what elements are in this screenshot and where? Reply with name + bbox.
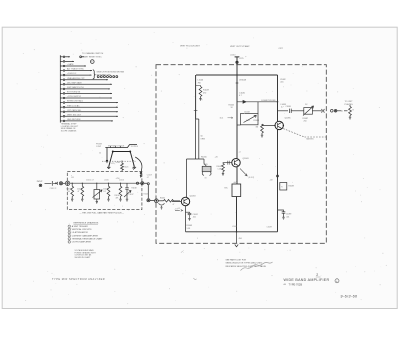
svg-text:TO PIN 3: TO PIN 3 [131,146,138,148]
svg-text:CR1048: CR1048 [239,79,246,81]
svg-text:SEE PARTS LIST FOR: SEE PARTS LIST FOR [226,258,247,261]
svg-text:START RESET SYNC: START RESET SYNC [82,55,102,58]
svg-text:C1012 4.7: C1012 4.7 [86,180,94,182]
svg-text:+225V SUPPLY: +225V SUPPLY [67,96,82,98]
svg-text:PLATES: PLATES [345,103,354,106]
svg-text:UNBLANKING CRT: UNBLANKING CRT [67,77,85,80]
svg-text:47: 47 [173,204,175,206]
svg-text:(6.8 V): (6.8 V) [249,177,255,179]
svg-text:4x7: 4x7 [234,182,237,184]
svg-text:WIDE BAND AMPLIFIER: WIDE BAND AMPLIFIER [284,278,330,282]
svg-text:E1048 PICKOFF: E1048 PICKOFF [262,100,277,102]
svg-text:.001: .001 [286,216,289,218]
svg-text:C1040: C1040 [239,92,246,94]
svg-text:4.7: 4.7 [281,107,284,109]
svg-text:C1044: C1044 [244,112,250,114]
svg-text:WITH MAG OFF: WITH MAG OFF [97,73,112,76]
svg-text:INPUT: INPUT [37,181,44,183]
svg-text:4.7: 4.7 [239,95,242,97]
svg-text:R1016: R1016 [115,195,120,197]
svg-text:ALT TRACE SYNC: ALT TRACE SYNC [67,68,84,71]
svg-text:DEL SWP GATE: DEL SWP GATE [67,81,82,84]
svg-text:OUTPUT AMPLIFIER: OUTPUT AMPLIFIER [72,241,92,244]
svg-text:C1089: C1089 [286,214,291,216]
svg-text:SCOPE CHASSIS: SCOPE CHASSIS [61,129,77,132]
svg-text:16.4: 16.4 [220,118,224,120]
svg-text:TYPE 702B: TYPE 702B [289,282,303,286]
svg-text:SWP RATE 1 MS/CM: SWP RATE 1 MS/CM [108,144,125,147]
svg-text:6: 6 [69,242,70,244]
svg-text:47: 47 [78,191,80,193]
svg-text:C1011: C1011 [77,189,82,191]
svg-text:+GATE: +GATE [67,63,74,66]
svg-text:TYPE M/R SPECTRUM ANALYZER: TYPE M/R SPECTRUM ANALYZER [52,278,105,281]
svg-text:+26: +26 [215,157,218,159]
svg-text:Q1085: Q1085 [285,118,292,120]
svg-text:-1.5: -1.5 [175,208,178,210]
svg-text:1: 1 [69,226,70,228]
svg-text:EXT HORIZ IN: EXT HORIZ IN [67,92,81,94]
svg-text:GANGED: GANGED [306,138,314,141]
svg-text:R1063: R1063 [187,225,193,227]
svg-text:.001: .001 [280,82,284,84]
svg-text:C1016: C1016 [119,180,124,182]
svg-text:HTR 6.3 V AC: HTR 6.3 V AC [67,104,80,107]
svg-text:TO CHANNEL SWITCH: TO CHANNEL SWITCH [82,52,104,55]
svg-text:TERMINAL RESISTANCE CHART: TERMINAL RESISTANCE CHART [72,237,103,240]
svg-text:Q1063: Q1063 [190,196,197,198]
svg-text:C1017: C1017 [129,194,134,196]
svg-text:L1046: L1046 [198,79,204,81]
svg-text:4.7: 4.7 [147,177,149,179]
svg-text:LF ATTENUATOR: LF ATTENUATOR [72,231,89,234]
svg-text:+100V DC: +100V DC [67,73,77,75]
svg-text:SHOWN IN CHART: SHOWN IN CHART [75,256,92,259]
svg-text:OHM: OHM [201,138,206,140]
svg-text:8.2: 8.2 [104,191,106,193]
svg-text:Q1043: Q1043 [243,158,250,160]
svg-text:+3: +3 [239,151,241,153]
svg-text:4-20: 4-20 [246,120,250,122]
svg-text:CRT CATH SEL: CRT CATH SEL [67,109,82,112]
svg-text:+68: +68 [270,180,273,182]
svg-text:A SWP TRIGGER: A SWP TRIGGER [72,225,88,228]
svg-text:VERT PLUG-IN UNIT: VERT PLUG-IN UNIT [180,45,201,47]
svg-text:250: 250 [304,121,307,123]
svg-text:L1040: L1040 [230,54,235,56]
svg-text:+225: +225 [111,163,115,165]
svg-text:L1069: L1069 [232,226,237,228]
svg-text:GND RETURN: GND RETURN [67,119,81,121]
svg-text:R1011: R1011 [67,189,72,191]
svg-text:R1042: R1042 [217,166,222,168]
svg-text:9-6/3-60: 9-6/3-60 [341,294,358,298]
svg-text:C1011 22: C1011 22 [50,188,57,190]
svg-text:R1021: R1021 [124,166,129,168]
svg-text:R1049: R1049 [203,90,210,92]
svg-text:SEMICONDUCTOR TYPES (SEL) USE: SEMICONDUCTOR TYPES (SEL) USED [226,263,263,265]
svg-text:C1019: C1019 [147,174,152,176]
svg-text:470: 470 [203,93,206,95]
svg-text:50: 50 [99,153,101,155]
svg-text:C1086: C1086 [286,106,291,108]
svg-text:CURRENT GAIN AMPLIFIER: CURRENT GAIN AMPLIFIER [72,234,99,237]
svg-text:VERT SIG OUT: VERT SIG OUT [67,114,82,116]
svg-text:2: 2 [69,229,70,231]
svg-text:INTEN LIMIT ADJ: INTEN LIMIT ADJ [67,100,83,103]
svg-text:SWP SAWTOOTH: SWP SAWTOOTH [67,86,84,89]
svg-text:REFERENCE DRAWINGS: REFERENCE DRAWINGS [74,222,99,225]
svg-text:2: 2 [316,273,318,277]
svg-text:R1088: R1088 [289,186,294,188]
svg-text:5: 5 [69,239,70,241]
svg-text:-150: -150 [238,238,242,240]
svg-text:R1056: R1056 [201,157,207,159]
svg-text:R1018: R1018 [132,187,137,189]
svg-text:R1020: R1020 [144,193,149,195]
svg-text:— THE 4 MV FULL GAIN FAST RI: — THE 4 MV FULL GAIN FAST RISE PLUG-IN — [80,211,125,214]
svg-text:VERT OUTPUT AMP: VERT OUTPUT AMP [230,45,250,48]
svg-text:VERTICAL CIRCUITS: VERTICAL CIRCUITS [72,228,92,231]
svg-text:C1015: C1015 [103,189,108,191]
svg-text:R1087: R1087 [303,118,309,120]
svg-text:R1084: R1084 [254,120,260,122]
svg-text:50: 50 [201,136,203,138]
svg-text:4: 4 [69,235,70,237]
svg-text:.001: .001 [193,216,196,218]
svg-text:C1082: C1082 [280,79,286,81]
svg-text:SWITCH POSITIONS SHOWN: SWITCH POSITIONS SHOWN [97,72,125,74]
svg-text:L1015: L1015 [104,180,109,182]
svg-text:R1062: R1062 [160,197,165,199]
svg-text:3: 3 [69,232,70,234]
svg-text:R1045: R1045 [229,104,235,106]
svg-text:COMP: COMP [96,146,102,148]
svg-text:C1089: C1089 [267,226,272,228]
svg-text:780: 780 [198,82,201,84]
svg-text:TO CRT: TO CRT [345,101,354,103]
